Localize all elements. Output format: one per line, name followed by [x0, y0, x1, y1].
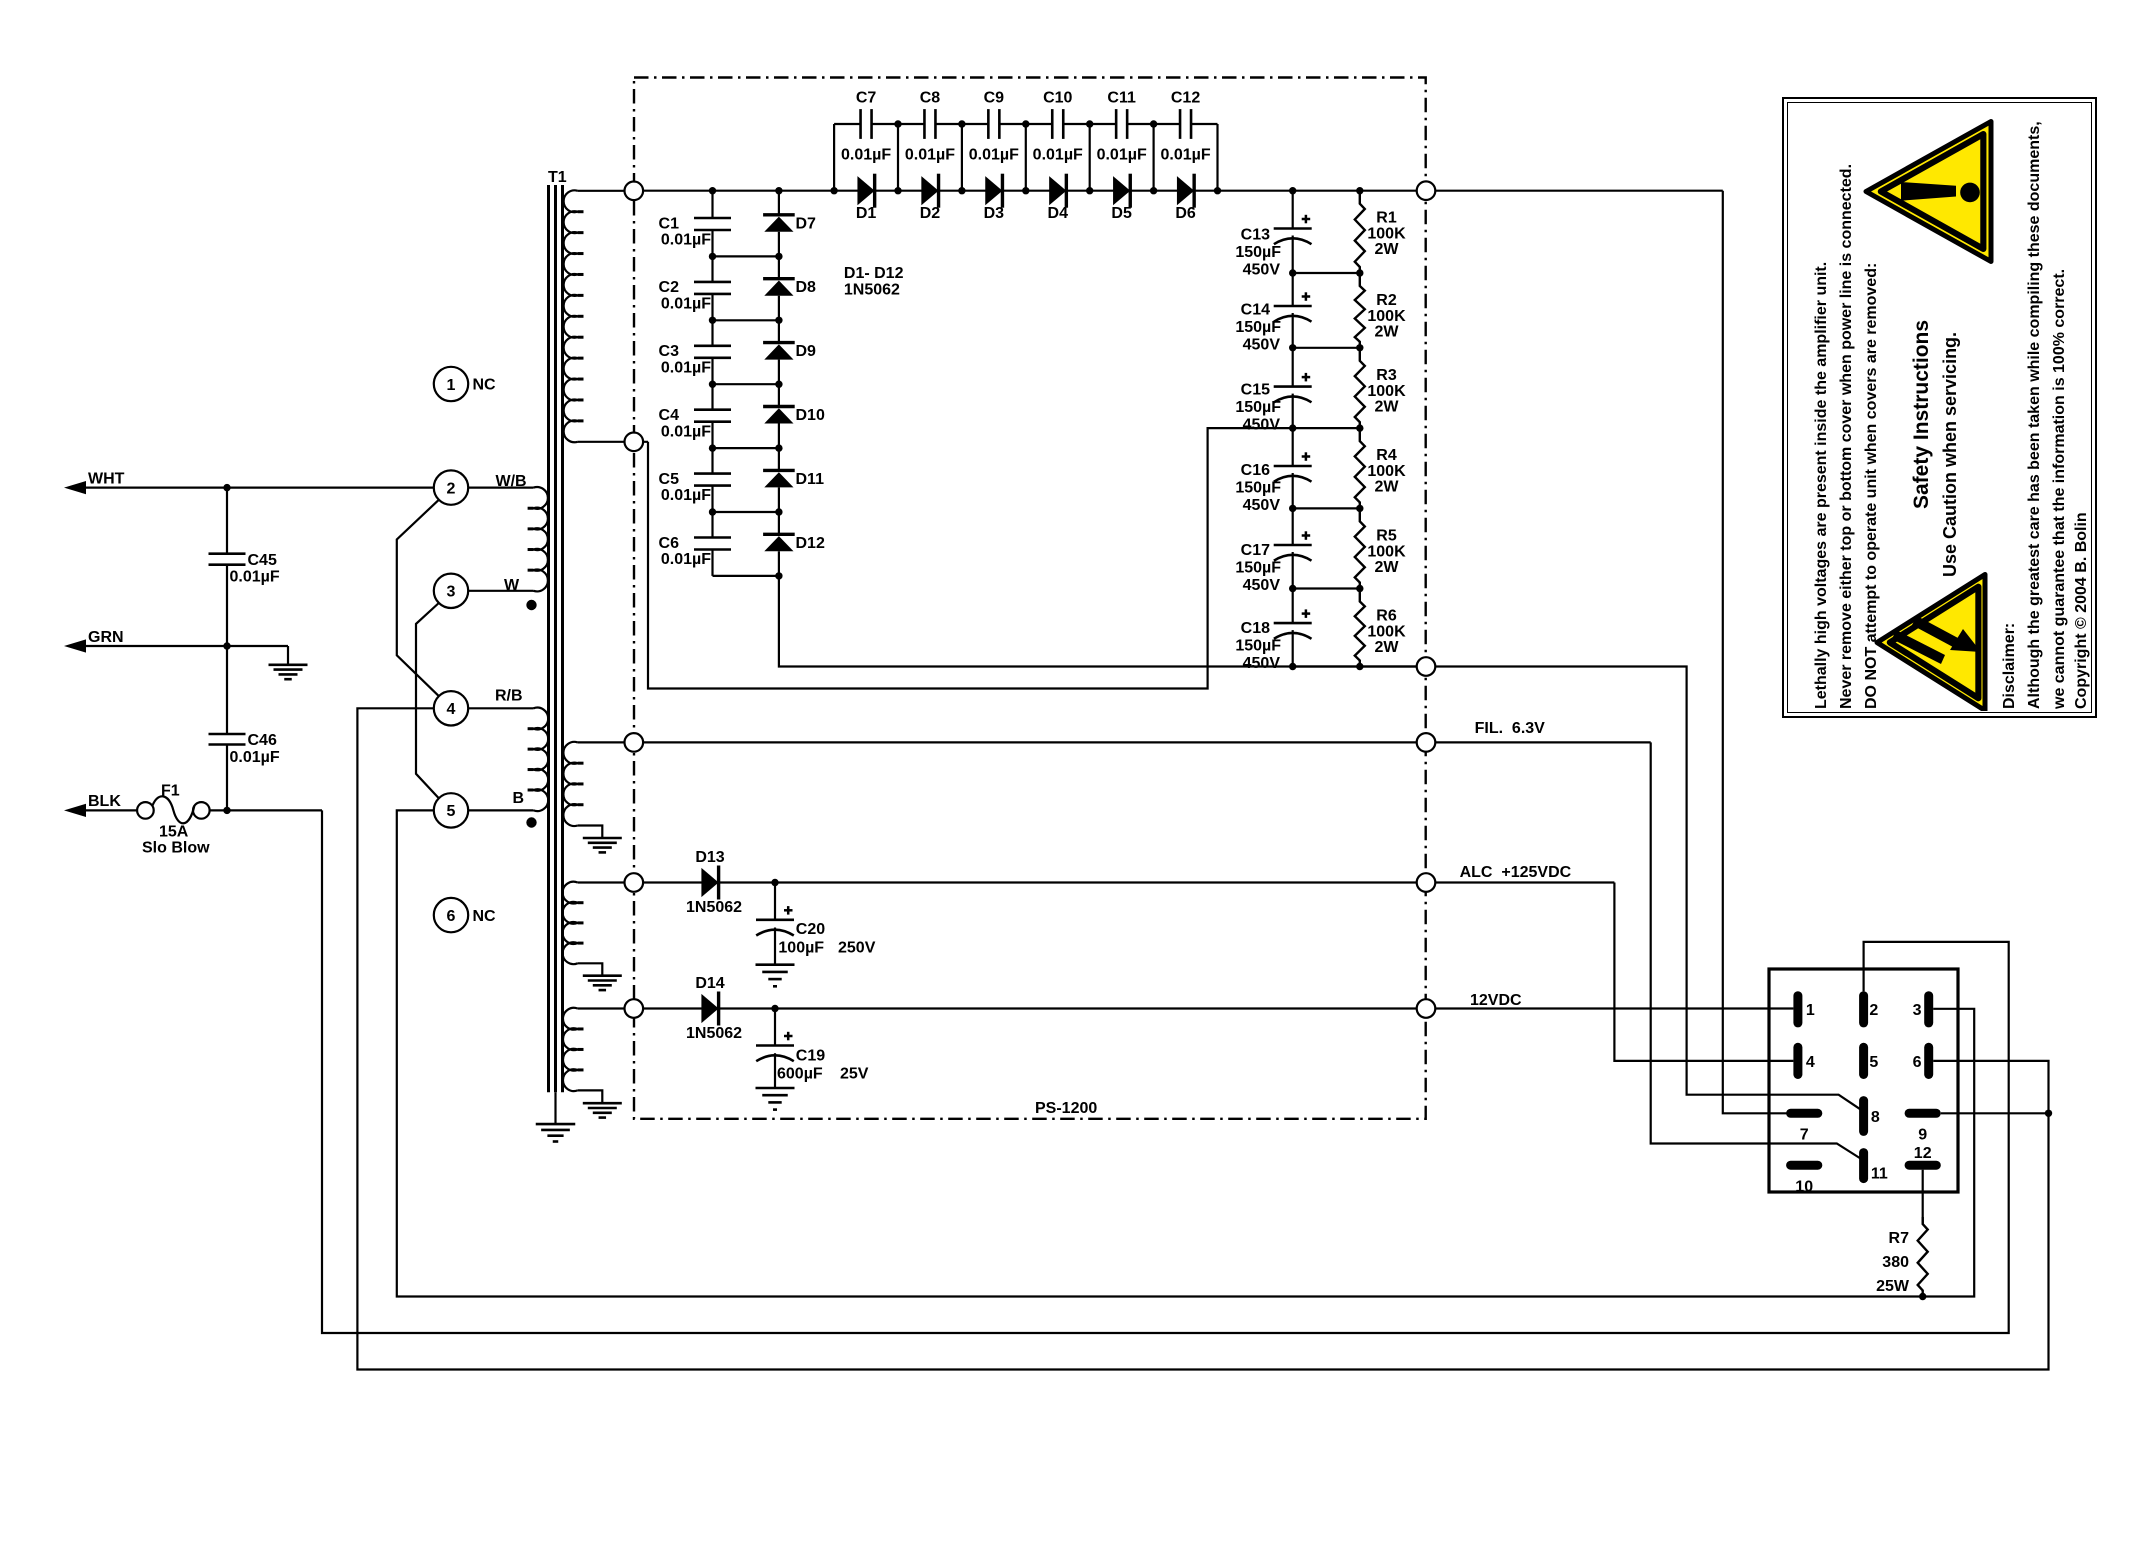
diode D6 — [1177, 176, 1194, 205]
transformer primary winding 2-3 — [534, 487, 548, 591]
svg-text:C3: C3 — [659, 343, 680, 360]
connector pin 5 — [1859, 1043, 1868, 1079]
wire BLK line — [84, 809, 137, 811]
junction BLK/C46 — [223, 807, 230, 814]
terminal 4 of T1 primary strip — [434, 691, 468, 725]
capacitor C6 — [694, 536, 731, 539]
wire junction row C1/C2 — [713, 255, 779, 257]
svg-text:600µF: 600µF — [777, 1066, 823, 1083]
svg-text:D8: D8 — [796, 279, 817, 296]
svg-text:0.01µF: 0.01µF — [1160, 147, 1210, 164]
svg-text:WHT: WHT — [88, 470, 125, 487]
svg-text:450V: 450V — [1243, 577, 1281, 594]
diode D8 — [763, 277, 795, 280]
svg-text:2W: 2W — [1375, 241, 1400, 258]
svg-text:0.01µF: 0.01µF — [661, 359, 711, 376]
capacitor C19 — [756, 1044, 794, 1047]
svg-text:100K: 100K — [1367, 226, 1406, 243]
terminal 5 of T1 primary strip — [434, 793, 468, 827]
svg-text:3: 3 — [447, 584, 456, 601]
svg-text:1: 1 — [1806, 1002, 1815, 1019]
wire fil bottom — [578, 826, 603, 839]
svg-text:D1- D12: D1- D12 — [844, 265, 904, 282]
wire 12VDC line — [643, 1007, 1793, 1009]
junction — [1289, 269, 1296, 276]
wire ALC to pin4 — [1614, 883, 1793, 1061]
svg-text:FIL. 6.3V: FIL. 6.3V — [1475, 720, 1546, 737]
connector pin 7 — [1786, 1109, 1822, 1118]
junction stack top — [1289, 187, 1296, 194]
wire pin12 to R7 — [1922, 1170, 1924, 1224]
svg-text:D11: D11 — [796, 471, 825, 488]
wire C1-C6 column — [711, 191, 713, 218]
node PS-1200 boundary terminal — [1417, 873, 1436, 892]
connector pin 3 — [1924, 991, 1933, 1027]
svg-text:0.01µF: 0.01µF — [841, 147, 891, 164]
connector pin 4 — [1793, 1043, 1802, 1079]
ground 12V winding — [583, 1102, 622, 1105]
warning triangle lightning — [1790, 107, 2093, 711]
svg-text:D14: D14 — [695, 975, 724, 992]
svg-text:C19: C19 — [796, 1047, 825, 1064]
svg-text:2: 2 — [447, 480, 456, 497]
wire term5 feed / bus1 to pin 3 — [397, 810, 1974, 1296]
svg-text:8: 8 — [1871, 1109, 1880, 1126]
svg-text:150µF: 150µF — [1235, 399, 1281, 416]
svg-text:150µF: 150µF — [1235, 244, 1281, 261]
wire C45 top lead — [226, 488, 228, 554]
capacitor C16 — [1274, 465, 1312, 468]
wire HV bottom — [578, 441, 648, 443]
diode D10 — [763, 405, 795, 408]
svg-text:0.01µF: 0.01µF — [661, 487, 711, 504]
svg-text:250V: 250V — [838, 940, 876, 957]
wire stack junction row — [1293, 272, 1360, 274]
PS-1200 power-supply module boundary (dash-dot box) — [634, 78, 1426, 1119]
ground C20 — [756, 963, 795, 966]
wire term4 feed / bus3 to pins 6,9 — [357, 708, 2048, 1369]
svg-text:6: 6 — [1913, 1054, 1922, 1071]
terminal 2 of T1 primary strip — [434, 470, 468, 504]
svg-text:BLK: BLK — [88, 793, 121, 810]
wire term3 cross-link — [416, 603, 439, 798]
svg-text:C18: C18 — [1241, 620, 1270, 637]
svg-text:100K: 100K — [1367, 543, 1406, 560]
node PS-1200 boundary terminal — [1417, 181, 1436, 200]
svg-text:C10: C10 — [1043, 90, 1072, 107]
svg-text:C15: C15 — [1241, 382, 1270, 399]
wire FIL to pin11 — [1651, 742, 1861, 1158]
wire HV top — [578, 190, 643, 192]
svg-text:D6: D6 — [1175, 205, 1196, 222]
junction stack bottom — [1289, 663, 1296, 670]
wire bus to pin7 — [1723, 191, 1787, 1114]
node PS-1200 boundary terminal — [1417, 657, 1436, 676]
node PS-1200 boundary terminal — [625, 433, 644, 452]
svg-text:100µF: 100µF — [778, 940, 824, 957]
svg-text:C1: C1 — [659, 215, 680, 232]
svg-text:150µF: 150µF — [1235, 319, 1281, 336]
wire HV top bus — [643, 190, 1723, 192]
junction — [1289, 585, 1296, 592]
capacitor C7 — [859, 109, 862, 139]
svg-text:C20: C20 — [796, 921, 825, 938]
svg-text:NC: NC — [473, 377, 497, 394]
ground ALC winding — [583, 974, 622, 977]
node PS-1200 boundary terminal — [625, 733, 644, 752]
svg-text:R5: R5 — [1376, 527, 1397, 544]
wire C45-GRN — [226, 565, 228, 646]
svg-text:C45: C45 — [248, 552, 277, 569]
heading Safety Instructions — [1910, 320, 1934, 509]
svg-text:150µF: 150µF — [1235, 479, 1281, 496]
svg-text:150µF: 150µF — [1235, 638, 1281, 655]
transformer ALC winding — [563, 882, 578, 964]
wire HV midpoint tap — [648, 428, 1293, 688]
wire term2-coil — [468, 487, 533, 489]
svg-text:PS-1200: PS-1200 — [1035, 1100, 1097, 1117]
wire junction row C4/C5 — [713, 447, 779, 449]
svg-text:100K: 100K — [1367, 463, 1406, 480]
svg-text:5: 5 — [447, 803, 456, 820]
resistor R1 — [1355, 191, 1365, 273]
svg-text:C9: C9 — [984, 90, 1005, 107]
wire ALC line — [643, 881, 1614, 883]
wire GRN line — [84, 645, 288, 647]
phase dot W — [526, 600, 536, 610]
svg-text:5: 5 — [1869, 1054, 1878, 1071]
connector relay socket outline — [1769, 969, 1958, 1192]
svg-text:D2: D2 — [920, 205, 941, 222]
junction — [709, 508, 716, 515]
svg-text:450V: 450V — [1243, 336, 1281, 353]
wire C20 lead — [774, 883, 776, 920]
svg-text:450V: 450V — [1243, 262, 1281, 279]
svg-text:0.01µF: 0.01µF — [230, 569, 280, 586]
svg-text:C14: C14 — [1241, 301, 1270, 318]
junction — [1289, 424, 1296, 431]
svg-text:9: 9 — [1918, 1127, 1927, 1144]
wire C46-BLK — [226, 745, 228, 811]
wire core to chassis ground — [554, 1092, 556, 1124]
svg-text:C7: C7 — [856, 90, 877, 107]
junction WHT/C45 — [223, 484, 230, 491]
wire stack bottom rail — [1293, 665, 1360, 667]
svg-text:R4: R4 — [1376, 447, 1397, 464]
svg-text:C2: C2 — [659, 279, 680, 296]
wire C13-C18 column — [1292, 191, 1294, 229]
diode D7 — [763, 213, 795, 216]
resistor R6 — [1355, 589, 1365, 667]
connector pin 9 — [1905, 1109, 1941, 1118]
capacitor C13 — [1274, 227, 1312, 230]
svg-text:D12: D12 — [796, 535, 825, 552]
capacitor C2 — [694, 281, 731, 284]
connector pin 1 — [1793, 991, 1802, 1027]
wire fuse-out — [210, 809, 322, 811]
svg-text:0.01µF: 0.01µF — [661, 296, 711, 313]
junction — [709, 381, 716, 388]
diode D11 — [763, 469, 795, 472]
svg-text:450V: 450V — [1243, 655, 1281, 672]
resistor R4 — [1355, 428, 1365, 508]
wire 12v bottom — [578, 1090, 603, 1103]
svg-text:D10: D10 — [796, 407, 825, 424]
node PS-1200 boundary terminal — [625, 182, 644, 201]
capacitor C12 — [1179, 109, 1182, 139]
capacitor C46 — [209, 733, 246, 736]
svg-text:7: 7 — [1800, 1127, 1809, 1144]
svg-text:D9: D9 — [796, 343, 817, 360]
svg-text:100K: 100K — [1367, 624, 1406, 641]
wire stack junction row — [1293, 507, 1360, 509]
svg-text:2W: 2W — [1375, 479, 1400, 496]
wire BLK to pin2 (bus2) — [322, 810, 2009, 1333]
wire GRN-C46 — [226, 646, 228, 734]
svg-text:D7: D7 — [796, 215, 817, 232]
wire D7-D12 column — [778, 191, 780, 215]
wire fil top — [578, 741, 643, 743]
svg-text:C6: C6 — [659, 535, 680, 552]
node PS-1200 boundary terminal — [625, 999, 644, 1018]
svg-text:R7: R7 — [1889, 1230, 1910, 1247]
junction — [709, 444, 716, 451]
transformer primary winding 4-5 — [534, 708, 549, 811]
svg-text:D1: D1 — [856, 205, 877, 222]
svg-text:4: 4 — [1806, 1054, 1815, 1071]
disclaimer lines — [2001, 623, 2019, 709]
wire junction row C3/C4 — [713, 383, 779, 385]
junction C19 tap — [771, 1005, 778, 1012]
svg-text:R6: R6 — [1376, 608, 1397, 625]
svg-text:C12: C12 — [1171, 90, 1200, 107]
wire stack junction row — [1293, 347, 1360, 349]
transformer HV secondary winding — [564, 190, 578, 442]
junction R7/bus1 — [1919, 1293, 1926, 1300]
wire term4-coil — [468, 707, 533, 709]
junction — [1289, 505, 1296, 512]
svg-text:100K: 100K — [1367, 308, 1406, 325]
svg-text:1N5062: 1N5062 — [686, 1025, 742, 1042]
svg-text:T1: T1 — [548, 169, 567, 186]
arrow GRN — [64, 639, 86, 652]
svg-text:R3: R3 — [1376, 367, 1397, 384]
connector pin 10 — [1786, 1161, 1822, 1170]
arrow BLK — [64, 804, 86, 817]
svg-text:D5: D5 — [1111, 205, 1132, 222]
node PS-1200 boundary terminal — [625, 873, 644, 892]
svg-text:12VDC: 12VDC — [1470, 992, 1522, 1009]
svg-text:2W: 2W — [1375, 324, 1400, 341]
wire 12v top — [578, 1007, 643, 1009]
wire HV- to pin8 — [1435, 667, 1861, 1110]
junction — [1289, 344, 1296, 351]
wire stack junction row — [1293, 587, 1360, 589]
svg-text:R1: R1 — [1376, 210, 1397, 227]
wire cap rail — [834, 123, 860, 125]
resistor R5 — [1355, 508, 1365, 588]
svg-text:4: 4 — [447, 701, 456, 718]
connector pin 11 — [1859, 1148, 1868, 1183]
svg-text:C16: C16 — [1241, 462, 1270, 479]
svg-text:0.01µF: 0.01µF — [1097, 147, 1147, 164]
ground transformer chassis — [536, 1123, 576, 1126]
wire C20 gnd lead — [774, 928, 776, 965]
junction — [709, 253, 716, 260]
svg-text:0.01µF: 0.01µF — [661, 551, 711, 568]
svg-text:2W: 2W — [1375, 639, 1400, 656]
capacitor C3 — [694, 344, 731, 347]
svg-text:C13: C13 — [1241, 227, 1270, 244]
junction bus nodes — [830, 187, 837, 194]
svg-text:10: 10 — [1795, 1178, 1813, 1195]
transformer 12V winding — [563, 1008, 578, 1091]
arrow WHT — [64, 481, 86, 494]
wire alc top — [578, 881, 643, 883]
wire pin9 branch — [1941, 1112, 2049, 1114]
svg-text:1N5062: 1N5062 — [844, 282, 900, 299]
connector pin 8 — [1859, 1096, 1868, 1136]
svg-text:25V: 25V — [840, 1066, 869, 1083]
resistor R3 — [1355, 348, 1365, 428]
capacitor C11 — [1115, 109, 1118, 139]
svg-text:1N5062: 1N5062 — [686, 899, 742, 916]
node PS-1200 boundary terminal — [1417, 999, 1436, 1018]
svg-text:6: 6 — [447, 908, 456, 925]
capacitor C4 — [694, 408, 731, 411]
wire junction row C5/C6 — [713, 511, 779, 513]
svg-text:11: 11 — [1871, 1165, 1888, 1182]
svg-text:Slo Blow: Slo Blow — [142, 840, 210, 857]
svg-text:2: 2 — [1869, 1002, 1878, 1019]
capacitor C8 — [923, 109, 926, 139]
svg-text:0.01µF: 0.01µF — [905, 147, 955, 164]
junction bus taps — [709, 187, 716, 194]
wire bottom of multiplier column — [713, 575, 779, 577]
connector pin 6 — [1924, 1043, 1933, 1079]
svg-text:C17: C17 — [1241, 542, 1270, 559]
diode D3 — [985, 176, 1002, 205]
svg-text:0.01µF: 0.01µF — [230, 749, 280, 766]
svg-text:NC: NC — [473, 908, 497, 925]
svg-text:25W: 25W — [1876, 1278, 1910, 1295]
wire alc bottom — [578, 963, 603, 975]
svg-text:C5: C5 — [659, 471, 680, 488]
diode D12 — [763, 533, 795, 536]
svg-text:2W: 2W — [1375, 398, 1400, 415]
resistor R2 — [1355, 273, 1365, 348]
svg-text:450V: 450V — [1243, 497, 1281, 514]
capacitor C18 — [1274, 622, 1312, 625]
svg-text:1: 1 — [447, 377, 456, 394]
wire junction row C2/C3 — [713, 319, 779, 321]
capacitor C20 — [756, 918, 794, 921]
svg-text:0.01µF: 0.01µF — [1033, 147, 1083, 164]
capacitor C9 — [987, 109, 990, 139]
wire cap rail verticals — [833, 124, 835, 191]
svg-text:R2: R2 — [1376, 292, 1397, 309]
junction pin9/bus3 — [2045, 1110, 2052, 1117]
wire stack junction row — [1293, 427, 1360, 429]
junction C20 tap — [771, 879, 778, 886]
diode D9 — [763, 341, 795, 344]
ground GRN earth — [269, 663, 308, 666]
diode D5 — [1113, 176, 1130, 205]
warning text lines — [1813, 262, 1831, 709]
svg-text:150µF: 150µF — [1235, 560, 1281, 577]
connector pin 12 — [1905, 1161, 1941, 1170]
svg-text:100K: 100K — [1367, 383, 1406, 400]
resistor R7 — [1918, 1217, 1928, 1297]
svg-text:0.01µF: 0.01µF — [661, 423, 711, 440]
connector pin 2 — [1859, 991, 1868, 1027]
rotated safety text content — [1790, 107, 2093, 711]
wire rail to boundary — [1360, 665, 1417, 667]
node PS-1200 boundary terminal — [1417, 733, 1436, 752]
transformer filament winding — [563, 742, 577, 826]
svg-text:D3: D3 — [984, 205, 1005, 222]
svg-text:15A: 15A — [159, 824, 189, 841]
wire ground stub — [287, 646, 289, 665]
wire term2 cross-link — [397, 500, 439, 696]
phase dot B — [526, 817, 536, 827]
svg-text:2W: 2W — [1375, 559, 1400, 576]
capacitor C15 — [1274, 385, 1312, 388]
svg-text:0.01µF: 0.01µF — [969, 147, 1019, 164]
junction rail nodes — [894, 120, 901, 127]
diode D2 — [921, 176, 938, 205]
terminal 3 of T1 primary strip — [434, 574, 468, 608]
diode D13 — [701, 868, 718, 897]
svg-text:C4: C4 — [659, 407, 680, 424]
wire FIL 6.3V line — [643, 741, 1651, 743]
svg-text:C46: C46 — [248, 732, 277, 749]
safety instructions label box — [1782, 97, 2097, 718]
diode D4 — [1049, 176, 1066, 205]
svg-text:D13: D13 — [695, 849, 724, 866]
ground filament winding — [583, 837, 622, 840]
svg-text:C8: C8 — [920, 90, 941, 107]
capacitor C14 — [1274, 305, 1312, 308]
svg-text:12: 12 — [1914, 1145, 1932, 1162]
diode D1 — [857, 176, 874, 205]
junction — [775, 572, 782, 579]
junction GRN — [223, 642, 230, 649]
capacitor C1 — [694, 217, 731, 220]
capacitor C17 — [1274, 544, 1312, 547]
capacitor C5 — [694, 472, 731, 475]
svg-text:GRN: GRN — [88, 629, 124, 646]
svg-text:B: B — [513, 790, 525, 807]
ground C19 — [756, 1087, 795, 1090]
svg-text:C11: C11 — [1107, 90, 1136, 107]
wire term5-coil — [468, 809, 533, 811]
wire D12 to HV- rail — [779, 576, 1417, 667]
capacitor C45 — [209, 552, 246, 555]
wire C19 gnd lead — [774, 1053, 776, 1088]
diode D14 — [701, 994, 718, 1023]
svg-text:380: 380 — [1882, 1254, 1909, 1271]
terminal 1 of T1 primary strip — [434, 367, 468, 401]
junction — [709, 317, 716, 324]
svg-text:0.01µF: 0.01µF — [661, 232, 711, 249]
svg-text:F1: F1 — [161, 783, 180, 800]
wire term3-coil — [468, 590, 533, 592]
transformer T1 core — [547, 185, 550, 1092]
svg-text:ALC +125VDC: ALC +125VDC — [1460, 864, 1572, 881]
svg-text:R/B: R/B — [495, 688, 523, 705]
fuse F1 — [137, 802, 154, 819]
